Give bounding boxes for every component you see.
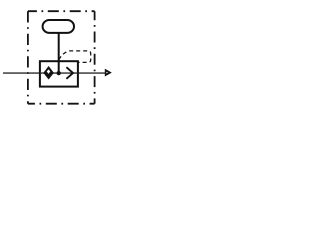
frame boundary: top border (dash-dot) [28,10,95,12]
background [0,0,116,116]
diamond [44,67,53,78]
dashed feedback link [59,51,91,63]
frame boundary: bottom border (dash-dot) [28,103,95,105]
arrow marker inside box [66,67,73,79]
wire: vertical connector from oval to junction [58,31,60,73]
output arrowhead [105,69,111,75]
wire: vertical connector inside box [58,61,60,73]
frame boundary: left border (dash-dot) [27,11,29,104]
junction dot [57,71,61,75]
state oval (stadium) [43,20,74,33]
diamond white center [47,69,51,73]
process box [40,61,78,86]
wire: flow line inside box [40,72,78,74]
frame boundary: right border (dash-dot) [94,11,96,104]
output arrowhead notch [106,72,108,74]
wire: horizontal flow line [3,72,106,74]
